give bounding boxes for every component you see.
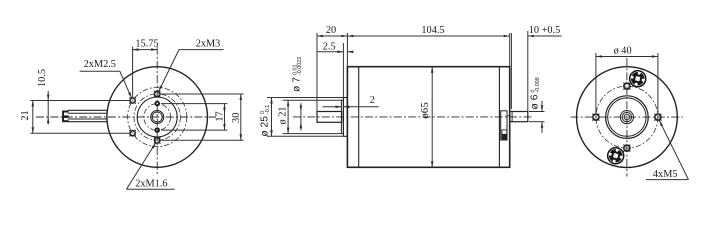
svg-text:17: 17: [214, 111, 225, 121]
svg-text:2xM3: 2xM3: [196, 39, 221, 50]
svg-text:ø 40: ø 40: [614, 46, 632, 57]
svg-text:2xM2.5: 2xM2.5: [84, 59, 116, 70]
svg-text:-0.1: -0.1: [265, 105, 271, 114]
svg-text:ø 7: ø 7: [292, 75, 303, 92]
svg-text:20: 20: [326, 25, 336, 36]
svg-text:10 +0.5: 10 +0.5: [529, 25, 561, 36]
svg-text:21: 21: [20, 110, 31, 120]
svg-text:-0.0022: -0.0022: [297, 57, 303, 75]
svg-text:ø65: ø65: [419, 102, 431, 119]
svg-text:4xM5: 4xM5: [653, 169, 678, 180]
svg-text:ø 6: ø 6: [530, 93, 541, 110]
svg-text:30: 30: [231, 113, 242, 123]
svg-text:ø 21: ø 21: [278, 106, 289, 124]
svg-text:10.5: 10.5: [37, 69, 48, 87]
svg-text:104.5: 104.5: [421, 25, 444, 36]
svg-text:2xM1.6: 2xM1.6: [135, 179, 167, 190]
svg-text:-0.008: -0.008: [535, 77, 541, 92]
svg-text:ø 25: ø 25: [259, 114, 270, 137]
svg-text:2.5: 2.5: [323, 41, 336, 52]
svg-text:2: 2: [370, 95, 375, 106]
svg-text:15.75: 15.75: [135, 39, 158, 50]
